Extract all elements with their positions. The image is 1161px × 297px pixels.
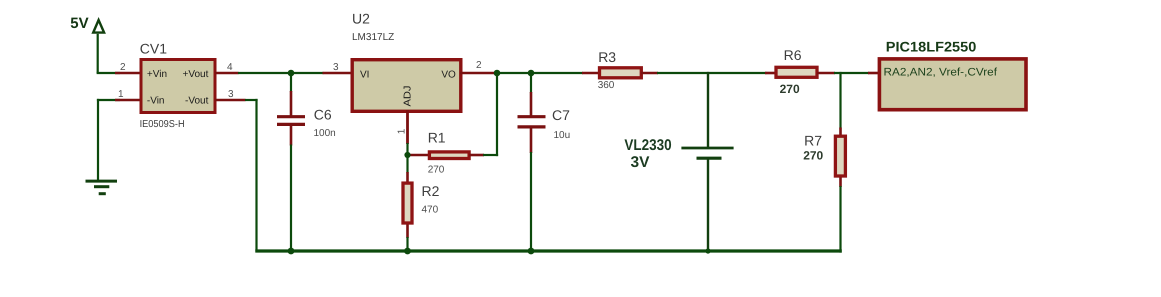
wire C7 node to R3 [531, 72, 583, 74]
label R3 [598, 49, 616, 65]
value label 3V [631, 154, 651, 171]
wire ADJ pin to node [406, 143, 408, 156]
pin number 1 [118, 89, 124, 100]
svg-text:RA2,AN2, Vref-,CVref: RA2,AN2, Vref-,CVref [884, 67, 998, 79]
svg-text:1: 1 [397, 128, 408, 134]
capacitor C7 [518, 92, 546, 153]
capacitor C6 [277, 91, 305, 146]
svg-text:C6: C6 [314, 107, 332, 123]
wire C7 bottom to rail [530, 152, 532, 251]
node junction ADJ / R1 / R2 [404, 152, 410, 158]
label C7 [552, 107, 570, 123]
pin number 2 of U2 [476, 60, 482, 71]
power label 5V [70, 15, 88, 32]
node junction R1 feedback top [494, 70, 501, 77]
pin number 3 [228, 89, 234, 100]
converter CV1 body [141, 60, 215, 113]
wire R7 bottom to rail [839, 186, 841, 253]
svg-text:VL2330: VL2330 [624, 137, 671, 154]
wire battery bottom to rail [707, 159, 709, 251]
pin 4 stub of CV1 [215, 72, 239, 75]
wire ground column vertical [97, 99, 99, 181]
pin 3 stub of CV1 (-Vout) [215, 99, 246, 102]
svg-text:VO: VO [441, 70, 456, 81]
svg-text:U2: U2 [352, 11, 370, 27]
node junction C7 top [528, 70, 535, 77]
microcontroller PIC18LF2550 body [879, 59, 1026, 110]
ground [86, 181, 118, 194]
resistor R7 [835, 128, 845, 188]
svg-text:R1: R1 [428, 130, 446, 146]
svg-text:270: 270 [780, 82, 800, 96]
svg-text:270: 270 [428, 165, 445, 176]
svg-text:R2: R2 [422, 183, 440, 199]
svg-text:LM317LZ: LM317LZ [352, 32, 394, 43]
svg-text:2: 2 [476, 60, 482, 71]
wire C6 top stub [290, 73, 292, 92]
power terminal 5V arrow [93, 20, 104, 33]
svg-text:C7: C7 [552, 107, 570, 123]
pin number 3 of U2 [333, 62, 339, 73]
node junction at C6 top [288, 70, 295, 77]
label U2 [352, 11, 370, 27]
wire R3 to R6 [657, 72, 767, 74]
svg-text:R7: R7 [804, 133, 822, 149]
wire CV1 -Vin to ground column [97, 99, 120, 101]
pin stub U2 ADJ [406, 110, 409, 144]
wire R2 bottom to rail [406, 237, 408, 251]
value label 100n [314, 128, 336, 139]
svg-text:470: 470 [422, 205, 439, 216]
svg-text:VI: VI [360, 70, 369, 81]
svg-text:-Vin: -Vin [147, 96, 165, 107]
svg-text:R6: R6 [784, 47, 802, 63]
resistor R3 [582, 68, 658, 78]
wire C6 bottom to rail [290, 145, 292, 252]
svg-text:3: 3 [228, 89, 234, 100]
pin name -Vout [185, 96, 209, 107]
label C6 [314, 107, 332, 123]
pin stub U2 VO [460, 72, 495, 75]
svg-text:3: 3 [333, 62, 339, 73]
resistor R6 [765, 67, 835, 77]
label R6 [784, 47, 802, 63]
pin number 4 [227, 62, 233, 73]
svg-text:IE0509S-H: IE0509S-H [140, 119, 185, 130]
svg-text:-Vout: -Vout [185, 96, 209, 107]
pin stub U2 VI [323, 72, 354, 75]
svg-text:R3: R3 [598, 49, 616, 65]
svg-text:4: 4 [227, 62, 233, 73]
label CV1 [140, 40, 167, 56]
pin 1 stub of CV1 [115, 99, 141, 102]
wire C7 top stub [530, 73, 532, 93]
pin name -Vin [147, 96, 165, 107]
svg-text:+Vin: +Vin [147, 69, 167, 80]
wire R6 to PIC with tee [834, 72, 869, 74]
label PIC18LF2550 [886, 39, 977, 55]
value label IE0509S-H [140, 119, 185, 130]
node junction C6 bottom rail [288, 248, 295, 255]
regulator U2 body [352, 60, 461, 112]
svg-text:1: 1 [118, 89, 124, 100]
value label 360 [598, 80, 615, 91]
node junction C7 bottom rail [528, 248, 535, 255]
pin name RA2,AN2, Vref-,CVref [884, 67, 998, 79]
svg-text:CV1: CV1 [140, 40, 167, 56]
svg-text:2: 2 [120, 62, 126, 73]
value label 270 of R1 [428, 165, 445, 176]
wire CV1 +Vout to U2 VI [238, 72, 324, 74]
node junction battery bottom rail [705, 248, 710, 253]
svg-text:3V: 3V [631, 154, 651, 171]
svg-text:ADJ: ADJ [403, 86, 414, 107]
wire R7 column vertical top [839, 72, 841, 129]
svg-text:360: 360 [598, 80, 615, 91]
pin number 2 [120, 62, 126, 73]
pin name +Vin [147, 69, 167, 80]
pin name VO [441, 70, 456, 81]
value label 470 [422, 205, 439, 216]
svg-text:10u: 10u [554, 130, 571, 141]
label R1 [428, 130, 446, 146]
value label 270 of R6 [780, 82, 800, 96]
wire R1 right to feedback vertical [483, 154, 498, 156]
battery VL2330 [681, 148, 733, 158]
svg-text:+Vout: +Vout [183, 69, 209, 80]
wire 5V stem down to node [97, 34, 99, 73]
wire battery column top [707, 72, 709, 148]
label R7 [804, 133, 822, 149]
resistor R1 [408, 152, 485, 159]
value label LM317LZ [352, 32, 394, 43]
wire VO node to C7 node [494, 72, 534, 74]
svg-text:100n: 100n [314, 128, 336, 139]
wire bottom rail [255, 249, 842, 252]
wire -Vout to left rail corner [245, 99, 258, 101]
wire 5V corner to CV1 pin 2 [97, 72, 120, 74]
label VL2330 [624, 137, 671, 154]
pin name ADJ rotated [403, 86, 414, 107]
node junction R2 bottom rail [404, 248, 411, 255]
pin number 1 of U2 rotated [397, 128, 408, 134]
wire feedback vertical [496, 73, 498, 156]
pin 2 stub of CV1 [115, 72, 141, 75]
svg-text:270: 270 [803, 149, 823, 163]
label R2 [422, 183, 440, 199]
svg-text:PIC18LF2550: PIC18LF2550 [886, 39, 977, 55]
wire ADJ node down to R2 [406, 155, 408, 173]
wire left vertical down to bottom rail [255, 99, 257, 252]
value label 270 of R7 [803, 149, 823, 163]
resistor R2 [403, 172, 412, 238]
pin name VI [360, 70, 369, 81]
svg-text:5V: 5V [70, 15, 88, 32]
value label 10u [554, 130, 571, 141]
pin stub PIC18LF2550 [868, 72, 879, 75]
pin name +Vout [183, 69, 209, 80]
